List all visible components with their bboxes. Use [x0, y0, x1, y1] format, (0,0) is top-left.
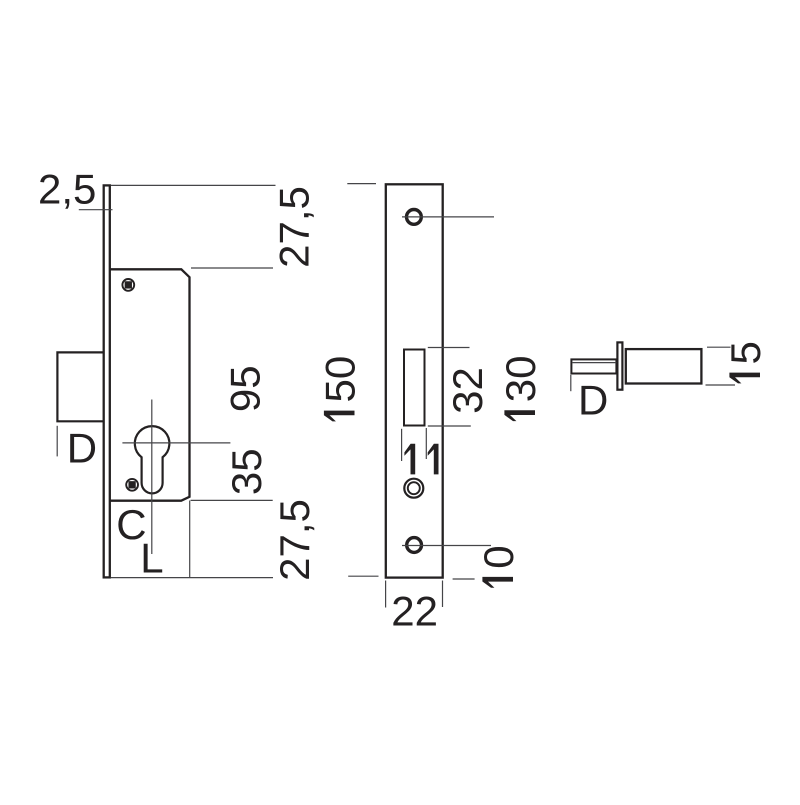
faceplate side view strip: [104, 185, 110, 577]
spindle body: [626, 349, 702, 383]
deadbolt (side view, left of faceplate strip): [57, 352, 105, 421]
bolt slot: [404, 350, 425, 426]
bottom hole leader line: [402, 545, 491, 547]
bottom screw hole: [407, 538, 422, 553]
strip bottom extension line: [111, 577, 273, 579]
faceplate front view: [386, 184, 443, 577]
case top extension line: [191, 267, 273, 269]
22 extension line left: [385, 581, 387, 608]
top screw hole: [407, 210, 422, 225]
dimension 150: [317, 356, 364, 422]
body top extension line: [707, 346, 731, 348]
top hole leader line: [402, 216, 494, 218]
extension line below bolt: [56, 426, 58, 457]
slot width extension line right: [425, 428, 427, 459]
slot top extension line: [428, 347, 470, 349]
cylinder hole inner: [408, 482, 420, 494]
leader line for 2,5: [79, 209, 113, 211]
lock case outline: [110, 269, 190, 500]
top screw (side view): [122, 279, 134, 291]
body bottom extension line: [706, 384, 736, 386]
slot width extension line left: [401, 429, 403, 461]
svg-text:0: 0: [475, 545, 522, 568]
svg-text:32: 32: [444, 367, 491, 414]
spindle shaft: [571, 359, 616, 373]
svg-text:D: D: [67, 425, 97, 472]
svg-text:27,5: 27,5: [270, 186, 317, 268]
cylinder vertical centerline: [151, 400, 153, 555]
svg-text:2,5: 2,5: [38, 166, 96, 213]
strip top extension line: [111, 184, 276, 186]
extension line below shaft: [570, 375, 572, 391]
svg-text:50: 50: [317, 356, 364, 403]
shaft flat edge line: [572, 362, 616, 364]
22 extension line right: [442, 581, 444, 608]
svg-text:L: L: [140, 535, 163, 582]
dimension 10: [475, 545, 522, 587]
svg-text:22: 22: [391, 588, 438, 635]
150 top tick: [347, 183, 376, 185]
bottom screw (side view): [126, 479, 138, 491]
plate bottom right extension line: [453, 578, 475, 580]
svg-text:5: 5: [722, 341, 769, 364]
spindle flange: [617, 342, 622, 389]
svg-text:30: 30: [497, 355, 544, 402]
svg-text:35: 35: [223, 448, 270, 495]
dimension 11: [404, 444, 438, 475]
150 bottom tick: [348, 575, 378, 577]
dimension 15: [722, 341, 769, 383]
dimension 130: [497, 355, 544, 421]
cylinder hole outer: [404, 479, 423, 498]
vertical extension at case corner: [189, 501, 191, 579]
cylinder horizontal centerline: [122, 442, 230, 444]
svg-text:95: 95: [221, 365, 268, 412]
euro cylinder profile: [135, 426, 170, 493]
svg-text:27,5: 27,5: [271, 499, 318, 581]
slot bottom extension line: [428, 425, 471, 427]
case bottom extension line: [191, 499, 273, 501]
svg-text:D: D: [578, 376, 608, 423]
